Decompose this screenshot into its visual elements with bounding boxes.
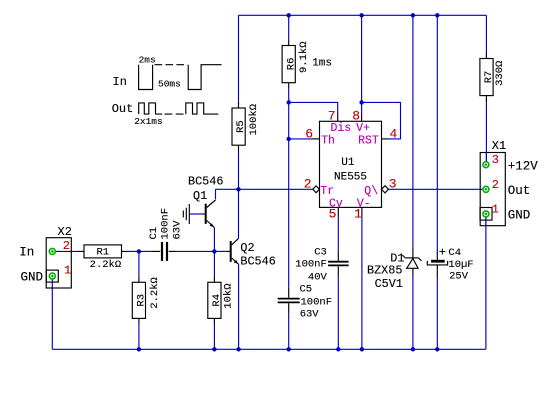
svg-text:BC546: BC546 (240, 254, 275, 268)
svg-text:R5: R5 (235, 120, 247, 133)
svg-text:C4: C4 (448, 247, 461, 259)
svg-text:C5V1: C5V1 (375, 277, 403, 291)
svg-text:BC546: BC546 (188, 174, 223, 188)
svg-text:Out: Out (112, 102, 134, 116)
svg-text:Q2: Q2 (240, 241, 254, 255)
svg-text:RST: RST (358, 134, 379, 147)
svg-text:X2: X2 (58, 225, 72, 239)
svg-text:Tr: Tr (320, 185, 334, 198)
svg-text:8: 8 (352, 109, 360, 124)
svg-text:2ms: 2ms (139, 54, 156, 65)
svg-text:5: 5 (329, 206, 337, 221)
svg-text:100nF: 100nF (295, 258, 327, 270)
svg-text:4: 4 (390, 126, 398, 141)
svg-text:Th: Th (321, 134, 335, 147)
svg-text:R4: R4 (211, 294, 223, 307)
svg-text:9.1kΩ: 9.1kΩ (298, 41, 310, 73)
svg-text:R6: R6 (285, 58, 297, 71)
svg-text:BZX85: BZX85 (367, 263, 402, 277)
svg-text:40V: 40V (308, 272, 328, 284)
svg-text:10µF: 10µF (448, 259, 473, 271)
svg-text:100kΩ: 100kΩ (248, 104, 260, 136)
svg-text:330Ω: 330Ω (494, 61, 506, 86)
svg-text:GND: GND (21, 270, 44, 284)
svg-text:50ms: 50ms (158, 78, 181, 89)
svg-text:63V: 63V (171, 220, 183, 240)
svg-text:+: + (439, 245, 446, 259)
svg-text:C3: C3 (314, 247, 327, 259)
svg-text:Dis: Dis (331, 122, 352, 135)
svg-text:In: In (113, 75, 127, 89)
svg-text:6: 6 (305, 126, 313, 141)
svg-text:100nF: 100nF (160, 208, 172, 240)
svg-text:C5: C5 (300, 284, 313, 296)
svg-text:NE555: NE555 (334, 172, 367, 184)
svg-text:25V: 25V (449, 270, 469, 282)
svg-text:2.2kΩ: 2.2kΩ (90, 259, 122, 271)
svg-text:10kΩ: 10kΩ (223, 283, 235, 308)
svg-text:R1: R1 (96, 246, 109, 258)
svg-text:3: 3 (389, 176, 397, 191)
svg-text:1: 1 (354, 206, 362, 221)
svg-text:Q1: Q1 (193, 189, 207, 203)
svg-text:R3: R3 (136, 294, 148, 307)
svg-text:2.2kΩ: 2.2kΩ (149, 277, 161, 309)
svg-text:1: 1 (492, 202, 499, 216)
svg-text:X1: X1 (492, 139, 506, 153)
svg-text:2x1ms: 2x1ms (134, 116, 163, 127)
svg-text:U1: U1 (341, 157, 355, 169)
svg-text:63V: 63V (300, 309, 320, 321)
svg-text:1ms: 1ms (312, 57, 332, 69)
svg-text:2: 2 (492, 178, 499, 192)
svg-text:+12V: +12V (508, 160, 539, 174)
svg-text:V+: V+ (356, 122, 370, 135)
svg-text:In: In (19, 245, 34, 259)
svg-text:2: 2 (63, 239, 70, 253)
svg-text:100nF: 100nF (301, 296, 333, 308)
svg-text:GND: GND (508, 208, 531, 222)
svg-text:Out: Out (508, 184, 531, 198)
svg-text:Q\: Q\ (364, 185, 378, 198)
svg-text:C1: C1 (148, 227, 160, 240)
svg-text:3: 3 (492, 153, 499, 167)
svg-text:2: 2 (304, 176, 312, 191)
svg-text:7: 7 (328, 109, 336, 124)
svg-text:1: 1 (64, 264, 71, 278)
